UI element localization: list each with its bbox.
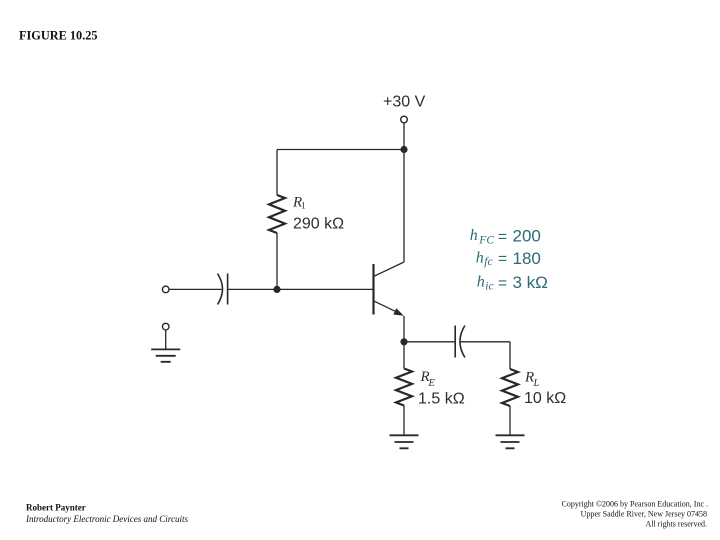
transistor Q1 collector diagonal xyxy=(375,262,405,276)
svg-text:10 kΩ: 10 kΩ xyxy=(524,390,566,407)
svg-text:L: L xyxy=(533,378,540,389)
capacitor C2 straight plate xyxy=(454,326,456,358)
wire capacitor to base xyxy=(228,288,373,290)
ground input symbol xyxy=(151,349,180,361)
svg-text:All rights reserved.: All rights reserved. xyxy=(645,520,707,529)
svg-text:=: = xyxy=(498,275,507,292)
svg-text:fc: fc xyxy=(484,256,492,268)
svg-text:=: = xyxy=(498,251,507,268)
svg-text:180: 180 xyxy=(513,249,541,268)
svg-text:3 kΩ: 3 kΩ xyxy=(513,273,548,292)
svg-text:1.5 kΩ: 1.5 kΩ xyxy=(418,390,465,407)
wire ground stem xyxy=(165,330,167,349)
svg-text:Copyright ©2006 by Pearson Edu: Copyright ©2006 by Pearson Education, In… xyxy=(562,499,709,508)
ground terminal circle (input) xyxy=(162,323,169,330)
svg-text:h: h xyxy=(470,227,478,244)
transistor Q1 base bar xyxy=(372,264,374,315)
wire supply vertical to collector xyxy=(403,123,405,262)
node junction dot xyxy=(400,146,407,153)
resistor RE xyxy=(396,369,412,406)
svg-text:ic: ic xyxy=(485,281,493,293)
resistor RL xyxy=(502,369,518,406)
resistor R1 xyxy=(269,195,285,233)
wire emitter to RE xyxy=(403,342,405,369)
svg-text:=: = xyxy=(498,229,507,246)
wire input to capacitor xyxy=(169,288,221,290)
svg-text:h: h xyxy=(476,249,484,266)
svg-text:Introductory Electronic Device: Introductory Electronic Devices and Circ… xyxy=(25,514,188,524)
wire top horizontal to R1 xyxy=(277,149,404,151)
capacitor C1 curved plate xyxy=(218,274,223,305)
node emitter junction dot xyxy=(400,338,407,345)
wire R1 top lead xyxy=(276,150,278,196)
transistor Q1 emitter arrowhead xyxy=(393,308,404,316)
svg-text:+30 V: +30 V xyxy=(383,94,426,111)
wire emitter vertical xyxy=(403,316,405,342)
svg-text:1: 1 xyxy=(301,202,306,212)
capacitor C2 curved plate xyxy=(460,326,465,358)
ground RE symbol xyxy=(390,435,419,448)
wire RL bottom lead xyxy=(509,406,511,435)
node base junction dot xyxy=(273,286,280,293)
svg-text:Robert Paynter: Robert Paynter xyxy=(26,503,86,513)
svg-text:290 kΩ: 290 kΩ xyxy=(293,216,344,233)
wire emitter to output capacitor xyxy=(407,341,454,343)
svg-text:E: E xyxy=(428,378,436,389)
svg-text:FIGURE 10.25: FIGURE 10.25 xyxy=(19,29,98,43)
svg-text:Upper Saddle River, New Jersey: Upper Saddle River, New Jersey 07458 xyxy=(581,509,707,518)
wire capacitor to RL xyxy=(461,342,511,369)
capacitor C1 straight plate xyxy=(227,274,229,305)
svg-text:h: h xyxy=(477,274,485,291)
transistor Q1 emitter diagonal xyxy=(375,301,398,312)
input terminal circle xyxy=(162,286,169,293)
ground RL symbol xyxy=(496,435,525,448)
svg-text:FC: FC xyxy=(478,235,494,247)
supply terminal circle xyxy=(401,116,408,123)
wire RE bottom lead xyxy=(403,406,405,436)
svg-text:200: 200 xyxy=(513,227,541,246)
wire R1 bottom lead to base node xyxy=(276,233,278,289)
